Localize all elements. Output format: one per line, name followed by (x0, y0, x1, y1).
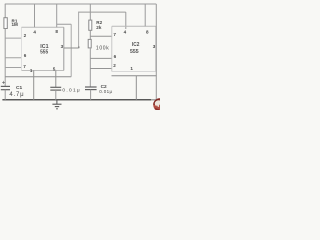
ground (56, 100, 58, 104)
wire IC1 pin4 drop from top rail (34, 4, 36, 27)
wire node row under IC1 (left column to pin1 column) (5, 76, 71, 78)
capacitor C2 (85, 86, 97, 88)
svg-text:3: 3 (153, 44, 156, 49)
svg-text:6: 6 (24, 53, 27, 58)
svg-text:8: 8 (55, 29, 58, 34)
svg-text:2k: 2k (96, 25, 102, 30)
wire IC2 pin4 drop (125, 12, 127, 29)
resistor R2 (89, 20, 92, 30)
IC U1: IC1 555 timer box (21, 27, 23, 70)
wire middle vertical column x71 (70, 24, 72, 76)
wire IC1 pin5 drop to bypass capacitor (55, 70, 57, 87)
wire IC1 pin6 branch (5, 57, 21, 59)
node junction on pin3 wire (78, 46, 80, 48)
svg-text:555: 555 (130, 49, 139, 55)
wire C1 to ground rail (4, 90, 6, 100)
capacitor C1 (1, 85, 10, 87)
wire IC1 pin1 drop to ground rail (33, 70, 35, 99)
svg-text:0.01μ: 0.01μ (62, 87, 81, 93)
wire IC2 pin8 drop from top rail (144, 4, 146, 26)
svg-text:1M: 1M (12, 22, 19, 27)
svg-text:1: 1 (30, 68, 33, 73)
svg-text:3: 3 (61, 44, 64, 49)
wire IC1 pin2 branch (5, 37, 21, 39)
wire right side rail (155, 4, 157, 100)
svg-text:100k: 100k (96, 45, 109, 51)
svg-text:+: + (2, 79, 6, 86)
svg-text:4: 4 (124, 29, 127, 34)
capacitor 0.01u on IC1 pin5 (50, 86, 61, 88)
wire IC2 pin2 branch (90, 68, 112, 70)
resistor R1 (4, 18, 7, 29)
wire timing column below 100k down to C2 (89, 48, 91, 87)
wire row under IC2 to right rail (112, 75, 157, 77)
svg-text:5: 5 (53, 67, 56, 72)
wire IC1 pin7 branch (5, 67, 21, 69)
wire IC1 pin3 output (64, 47, 79, 49)
wire IC2 pin1 drop to ground rail (135, 76, 137, 100)
svg-text:4.7μ: 4.7μ (9, 92, 24, 98)
svg-text:1: 1 (130, 66, 133, 71)
resistor 100k (88, 39, 91, 48)
svg-text:8: 8 (146, 29, 149, 34)
wire 0.01u capacitor to ground rail (55, 90, 57, 100)
wire jumper from riser to IC2 pin4 (79, 11, 126, 13)
svg-text:6: 6 (114, 54, 117, 59)
svg-text:7: 7 (23, 64, 26, 69)
IC U2: IC2 555 timer box (111, 26, 113, 71)
wire bottom ground rail (2, 99, 156, 101)
svg-text:C1: C1 (16, 85, 22, 91)
wire R2 drop from top rail (89, 4, 91, 20)
svg-text:IC2: IC2 (132, 42, 140, 48)
wire riser from pin3 wire up to IC2 pin4 jumper (78, 12, 80, 48)
wire top supply rail (5, 3, 157, 5)
svg-text:4: 4 (33, 30, 36, 35)
wire R2 to 100k resistor (89, 30, 91, 39)
wire IC2 pin7 branch (90, 35, 112, 37)
svg-text:2: 2 (24, 33, 27, 38)
wire IC1 pin8 drop from top rail with jog right (57, 4, 71, 27)
svg-text:7: 7 (113, 32, 116, 37)
wire IC2 pin6 branch (90, 57, 112, 59)
svg-text:555: 555 (40, 50, 48, 56)
wire left column from top rail to R1 (4, 4, 6, 18)
logo watermark bottom right (153, 98, 166, 111)
wire C2 to ground rail (90, 90, 92, 100)
wire left column below R1 down to C1 (4, 29, 6, 87)
svg-text:2: 2 (113, 63, 116, 68)
svg-text:0.01μ: 0.01μ (99, 89, 112, 94)
